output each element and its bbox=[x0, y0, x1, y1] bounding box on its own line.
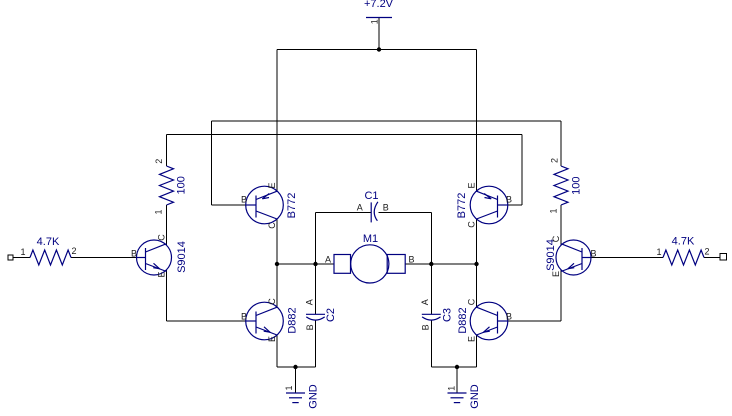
svg-text:2: 2 bbox=[704, 247, 709, 257]
svg-text:B: B bbox=[408, 254, 414, 264]
svg-text:C: C bbox=[157, 234, 167, 241]
svg-text:B: B bbox=[506, 312, 512, 322]
svg-text:M1: M1 bbox=[363, 233, 378, 245]
svg-text:E: E bbox=[467, 336, 477, 342]
svg-text:1: 1 bbox=[446, 386, 456, 391]
svg-text:2: 2 bbox=[550, 158, 560, 163]
svg-text:C: C bbox=[551, 235, 561, 242]
svg-text:4.7K: 4.7K bbox=[672, 236, 695, 248]
svg-text:B: B bbox=[506, 195, 512, 205]
svg-text:B: B bbox=[383, 202, 389, 212]
svg-text:1: 1 bbox=[369, 19, 379, 24]
svg-text:C: C bbox=[467, 221, 477, 228]
svg-text:B: B bbox=[131, 249, 137, 259]
svg-text:A: A bbox=[305, 299, 315, 305]
svg-text:E: E bbox=[267, 336, 277, 342]
svg-text:1: 1 bbox=[656, 247, 661, 257]
svg-text:1: 1 bbox=[284, 385, 294, 390]
svg-text:B772: B772 bbox=[456, 193, 468, 219]
svg-text:2: 2 bbox=[71, 246, 76, 256]
svg-text:B: B bbox=[241, 312, 247, 322]
svg-text:+7.2V: +7.2V bbox=[364, 0, 394, 10]
svg-text:S9014: S9014 bbox=[545, 239, 557, 271]
svg-text:C: C bbox=[267, 222, 277, 229]
svg-text:E: E bbox=[267, 182, 277, 188]
svg-text:100: 100 bbox=[570, 177, 582, 195]
svg-text:GND: GND bbox=[469, 384, 481, 409]
svg-text:B772: B772 bbox=[286, 193, 298, 219]
svg-text:C: C bbox=[267, 298, 277, 305]
svg-text:A: A bbox=[325, 254, 331, 264]
svg-text:D882: D882 bbox=[287, 307, 299, 333]
svg-text:B: B bbox=[241, 195, 247, 205]
svg-text:C3: C3 bbox=[442, 308, 454, 322]
svg-text:B: B bbox=[420, 324, 430, 330]
svg-text:1: 1 bbox=[549, 208, 559, 213]
svg-text:1: 1 bbox=[20, 247, 25, 257]
svg-text:B: B bbox=[590, 249, 596, 259]
svg-text:1: 1 bbox=[154, 209, 164, 214]
svg-text:100: 100 bbox=[175, 176, 187, 194]
svg-text:A: A bbox=[420, 299, 430, 305]
svg-text:E: E bbox=[467, 182, 477, 188]
svg-text:GND: GND bbox=[308, 384, 320, 409]
svg-text:B: B bbox=[305, 324, 315, 330]
svg-text:C2: C2 bbox=[325, 308, 337, 322]
svg-text:4.7K: 4.7K bbox=[37, 236, 60, 248]
svg-text:S9014: S9014 bbox=[176, 241, 188, 273]
svg-text:D882: D882 bbox=[457, 307, 469, 333]
svg-text:A: A bbox=[357, 202, 363, 212]
svg-text:C1: C1 bbox=[364, 190, 378, 202]
svg-text:E: E bbox=[157, 271, 167, 277]
svg-text:C: C bbox=[467, 298, 477, 305]
svg-text:2: 2 bbox=[154, 159, 164, 164]
svg-text:E: E bbox=[551, 271, 561, 277]
